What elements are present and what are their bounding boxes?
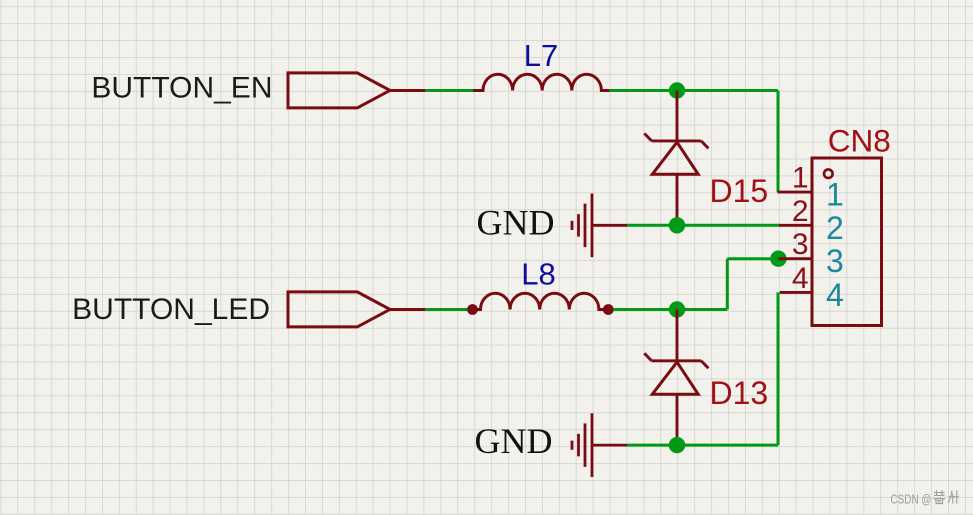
diode D13 right wing: [701, 361, 708, 369]
wire corner up: [726, 259, 729, 310]
svg-text:GND: GND: [475, 421, 553, 461]
diode D15 right wing: [701, 141, 708, 149]
svg-text:2: 2: [792, 195, 809, 228]
pin 3 lead: [778, 257, 812, 260]
wire corner to pin 3: [727, 257, 778, 260]
diode D13 cathode bar: [652, 359, 702, 362]
svg-text:BUTTON_LED: BUTTON_LED: [72, 293, 270, 326]
diode D13 triangle: [652, 362, 698, 394]
diode D13 top lead: [676, 310, 679, 363]
diode D15 triangle: [652, 142, 698, 174]
wire node A to corner: [677, 89, 778, 92]
svg-text:GND: GND: [477, 203, 555, 243]
L8 left terminal dot: [467, 304, 478, 315]
ground symbol top: [572, 194, 592, 258]
svg-text:L8: L8: [521, 256, 555, 291]
diode D13 left wing: [644, 353, 651, 361]
svg-text:2: 2: [826, 210, 844, 246]
pin of BUTTON_EN: [390, 89, 425, 92]
svg-text:D13: D13: [710, 375, 769, 411]
connector CN8 pin1 indicator circle: [824, 169, 833, 178]
svg-text:L7: L7: [524, 38, 558, 73]
diode D15 left wing: [644, 133, 651, 141]
junction node A: [669, 82, 685, 98]
junction node D: [669, 437, 685, 453]
wire L7 to node A: [610, 89, 678, 92]
wire corner down to pin 1: [777, 91, 780, 193]
wire node B to pin 2: [677, 224, 780, 227]
svg-text:4: 4: [826, 277, 844, 313]
inductor L7: [473, 74, 609, 90]
junction node B: [669, 217, 685, 233]
pin of BUTTON_LED: [390, 308, 425, 311]
connector CN8 body: [812, 158, 882, 326]
inductor L8: [473, 293, 608, 309]
svg-text:CSDN @: CSDN @: [891, 493, 932, 507]
svg-text:4: 4: [792, 262, 809, 295]
ground symbol bottom: [572, 413, 592, 477]
ground bottom horizontal lead: [592, 444, 627, 447]
port BUTTON_LED: [288, 292, 390, 327]
svg-text:1: 1: [826, 177, 844, 213]
diode D15 bottom lead: [676, 174, 679, 225]
ground top horizontal lead: [592, 224, 627, 227]
wire ground to node D: [627, 444, 677, 447]
svg-text:1: 1: [792, 162, 809, 195]
wire node C to corner: [677, 308, 727, 311]
diode D15 top lead: [676, 91, 679, 143]
pin 4 lead: [780, 291, 812, 294]
wire corner up to pin 4: [777, 292, 780, 445]
wire BUTTON_EN to L7: [425, 89, 474, 92]
svg-text:CN8: CN8: [828, 123, 891, 159]
wire node D to corner: [677, 444, 778, 447]
wire L8 to node C: [613, 308, 677, 311]
junction node C: [669, 301, 685, 317]
diode D13 bottom lead: [676, 394, 679, 445]
svg-text:BUTTON_EN: BUTTON_EN: [91, 72, 272, 105]
svg-text:3: 3: [792, 228, 809, 261]
L8 right terminal dot: [603, 304, 614, 315]
wire ground to node B: [627, 224, 677, 227]
junction at pin 3: [770, 251, 786, 267]
svg-text:D15: D15: [710, 173, 769, 209]
wire BUTTON_LED to L8: [425, 308, 470, 311]
svg-text:3: 3: [826, 243, 844, 279]
pin 2 lead: [779, 224, 812, 227]
pin 1 lead: [778, 191, 813, 194]
diode D15 cathode bar: [652, 139, 702, 142]
port BUTTON_EN: [288, 73, 390, 108]
